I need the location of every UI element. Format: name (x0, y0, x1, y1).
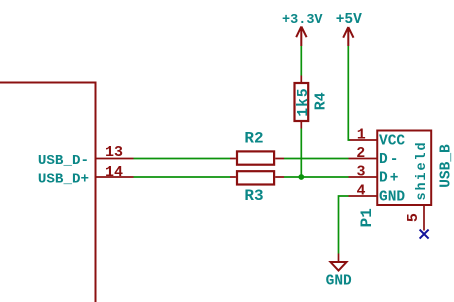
svg-text:4: 4 (356, 183, 365, 200)
svg-text:shield: shield (415, 140, 430, 200)
svg-text:GND: GND (379, 189, 405, 205)
svg-text:USB_D-: USB_D- (38, 153, 89, 169)
svg-text:3: 3 (356, 164, 365, 181)
svg-text:+3.3V: +3.3V (282, 13, 323, 28)
svg-text:R2: R2 (244, 130, 263, 148)
svg-text:1: 1 (357, 127, 366, 144)
svg-text:GND: GND (326, 274, 352, 290)
svg-text:R4: R4 (313, 92, 330, 110)
svg-text:USB_B: USB_B (439, 144, 454, 188)
svg-text:D+: D+ (379, 170, 400, 186)
svg-text:D-: D- (379, 152, 400, 168)
svg-text:VCC: VCC (379, 133, 405, 149)
svg-text:R3: R3 (244, 187, 263, 205)
svg-text:13: 13 (105, 144, 123, 161)
svg-text:14: 14 (105, 164, 123, 181)
svg-text:5: 5 (405, 213, 422, 222)
svg-text:2: 2 (356, 145, 365, 162)
svg-text:+5V: +5V (336, 12, 362, 28)
svg-text:USB_D+: USB_D+ (38, 172, 89, 188)
svg-text:1k5: 1k5 (296, 87, 312, 116)
svg-text:P1: P1 (358, 208, 376, 227)
